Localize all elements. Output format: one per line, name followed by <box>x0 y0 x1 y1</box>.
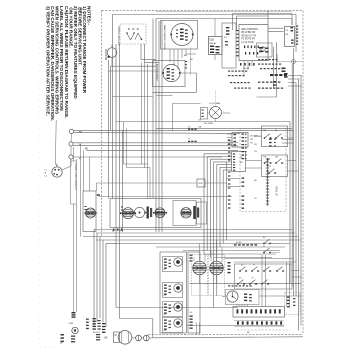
wire <box>187 325 285 327</box>
wire L1 BK <box>74 130 294 132</box>
wire <box>99 196 232 198</box>
clock box <box>226 290 260 305</box>
wire <box>277 61 292 63</box>
bus wire elbow to clock area <box>116 307 238 309</box>
svg-text:BK W BR OR: BK W BR OR <box>242 32 256 34</box>
bus wire <box>295 83 297 297</box>
bus wire <box>300 76 302 326</box>
svg-text:L1 L2 N GD: L1 L2 N GD <box>242 42 254 44</box>
wire <box>141 62 143 164</box>
wire <box>232 14 234 31</box>
connector J2 pin column <box>267 158 269 206</box>
row coil C5 <box>155 208 165 218</box>
wire <box>96 239 301 241</box>
svg-text:BR: BR <box>184 55 187 57</box>
harness dashed box <box>240 129 286 212</box>
fold dotted line bottom <box>40 346 58 348</box>
inline connector <box>188 141 190 142</box>
fan motor box <box>201 108 208 120</box>
svg-text:GY: GY <box>198 120 202 122</box>
oven relay box <box>222 23 236 68</box>
switch bank box <box>235 264 293 289</box>
wire <box>96 229 292 231</box>
wire <box>292 270 300 272</box>
row box <box>110 199 201 228</box>
svg-text:OR: OR <box>250 139 254 141</box>
svg-text:BK: BK <box>105 338 109 340</box>
dash row left b <box>228 75 230 76</box>
clock motor <box>227 291 238 302</box>
wire <box>99 237 101 319</box>
svg-text:GRN: GRN <box>69 323 74 325</box>
wire <box>144 62 146 167</box>
wire <box>237 15 269 17</box>
left harness stubs <box>228 139 230 140</box>
wire <box>288 75 302 77</box>
wire N branch <box>73 144 238 147</box>
bake pins <box>176 30 178 31</box>
wire <box>259 295 301 297</box>
door lock contacts <box>127 34 131 41</box>
svg-text:OR: OR <box>198 127 202 129</box>
power plug P1 <box>52 167 62 177</box>
row coil C6 <box>181 208 191 218</box>
svg-text:3701 W: 3701 W <box>275 186 279 196</box>
left thermostat box <box>83 191 96 232</box>
wire <box>105 244 107 328</box>
relay board pin column <box>296 26 298 27</box>
bus wire <box>158 21 160 232</box>
wire <box>190 282 301 284</box>
dashed wire <box>237 329 290 331</box>
svg-text:DOOR SW: DOOR SW <box>104 49 106 61</box>
wire <box>267 11 269 25</box>
wire <box>216 240 218 261</box>
switch SW1 <box>264 137 266 139</box>
junction circle J3 <box>69 155 73 159</box>
wire <box>89 157 91 191</box>
wire <box>196 323 198 335</box>
svg-text:DLB: DLB <box>210 40 215 42</box>
wire <box>183 250 280 252</box>
corner wire <box>126 128 128 167</box>
switch bank pins <box>228 262 231 263</box>
wire <box>172 104 174 131</box>
relay coil K2 <box>210 261 224 275</box>
wire <box>291 14 293 26</box>
clock marks <box>244 294 247 295</box>
wire <box>227 186 240 188</box>
wire <box>204 253 276 255</box>
wire <box>276 54 278 62</box>
wire <box>296 61 303 63</box>
wirebox edge <box>276 42 278 97</box>
wire <box>268 31 284 33</box>
svg-text:DOOR LOCK SW: DOOR LOCK SW <box>117 27 120 47</box>
wire <box>102 240 104 322</box>
oven light symbol <box>292 60 296 64</box>
wire <box>225 162 227 240</box>
switch SW5 <box>268 172 270 174</box>
wire <box>233 13 293 15</box>
wire <box>265 255 267 307</box>
bus wire <box>122 130 124 232</box>
wire <box>286 262 288 307</box>
switch row 2 <box>237 283 239 285</box>
wire <box>246 167 262 169</box>
wire <box>236 16 238 30</box>
connector stack CS2 <box>72 312 76 313</box>
cord tail wires <box>73 204 75 312</box>
cluster under control box <box>240 63 241 66</box>
term dash row 4 <box>258 82 260 83</box>
wire <box>210 251 212 262</box>
wire <box>273 47 275 88</box>
term dash row 3 <box>260 68 262 69</box>
bus wire <box>155 60 157 232</box>
fan motor circle <box>210 107 222 119</box>
wire <box>222 112 230 114</box>
wire <box>234 261 297 263</box>
tall box T2 <box>188 252 200 333</box>
outer dashed frame bottom edge <box>148 334 303 336</box>
wire <box>153 91 197 93</box>
switch row 1 <box>239 270 241 272</box>
wire <box>214 257 272 259</box>
wire <box>288 78 300 80</box>
wire <box>215 119 217 121</box>
svg-text:OVN: OVN <box>198 183 203 185</box>
wire <box>268 27 284 29</box>
svg-text:W: W <box>253 265 255 267</box>
svg-text:POWER CORD 4-WIRE KIT: POWER CORD 4-WIRE KIT <box>74 163 76 191</box>
nested frame left <box>155 19 157 61</box>
svg-text:RELAY: RELAY <box>210 42 218 45</box>
wire <box>116 121 290 123</box>
wire <box>93 230 95 328</box>
door lock dashed box <box>120 24 146 44</box>
inline connector <box>188 129 190 130</box>
row marks C4 <box>147 207 149 219</box>
wire <box>180 72 196 74</box>
wire <box>140 44 142 60</box>
wire <box>199 323 201 335</box>
bus wire <box>298 79 300 331</box>
term dash row 1 <box>258 59 260 60</box>
wire <box>196 73 198 92</box>
bus wire <box>161 21 163 232</box>
relay dashed box K2 <box>209 255 225 296</box>
bus wire <box>110 66 112 130</box>
wire L1 branch <box>74 132 240 135</box>
wire <box>288 137 294 139</box>
row right marks <box>193 206 196 219</box>
bake element circle <box>171 24 193 46</box>
svg-text:DK GRN: DK GRN <box>254 136 262 138</box>
svg-text:BAKE ELEMENT 3000W: BAKE ELEMENT 3000W <box>163 25 166 50</box>
term dash row 2 <box>258 64 260 65</box>
broil element coil <box>167 68 170 69</box>
wire <box>96 232 295 234</box>
harness top cluster <box>269 139 272 140</box>
wire N W <box>73 142 238 144</box>
wire <box>204 254 206 262</box>
connector stack CS1 <box>93 318 96 319</box>
svg-text:W: W <box>263 246 265 248</box>
switch pair <box>263 243 265 245</box>
cord riser wire <box>70 146 72 155</box>
wire <box>208 112 209 114</box>
selector tall box <box>160 252 187 333</box>
wire <box>80 144 82 237</box>
terminal row TR2 <box>237 321 239 324</box>
bus wire <box>291 64 293 287</box>
switch SW4 <box>275 162 277 164</box>
wire <box>292 276 302 278</box>
oven sensor <box>197 179 205 187</box>
thermostat coil <box>86 208 96 218</box>
svg-text:BROIL ELEMENT: BROIL ELEMENT <box>156 64 158 82</box>
wire <box>153 337 303 338</box>
oven motor <box>114 332 120 343</box>
wire <box>83 236 298 238</box>
wire <box>221 247 223 262</box>
wire <box>246 160 262 162</box>
wire <box>156 95 173 97</box>
outer dashed frame right edge <box>302 11 304 335</box>
bus wire <box>115 44 117 308</box>
wire <box>144 44 146 62</box>
relay coil K1 <box>193 261 207 275</box>
bus wire <box>152 19 154 199</box>
bus wire <box>108 60 110 199</box>
term heavy cluster <box>270 74 273 76</box>
component row dashes <box>234 244 237 245</box>
wire <box>193 258 195 262</box>
switch SW3 <box>264 162 266 164</box>
power cord label box <box>71 161 77 204</box>
bake element coil <box>180 29 184 31</box>
door switch circle <box>107 48 117 58</box>
wire <box>222 296 226 298</box>
row coil C2 <box>123 208 134 219</box>
bus wire <box>293 48 295 296</box>
wire <box>261 255 263 307</box>
svg-text:DK GRN: DK GRN <box>204 123 213 125</box>
svg-text:COOL FAN: COOL FAN <box>209 102 220 105</box>
junction circle J1 <box>69 129 73 133</box>
wire <box>205 182 227 184</box>
wire <box>199 275 201 284</box>
switch group box 2 <box>262 155 288 177</box>
wire <box>113 96 153 98</box>
relay dashed box K1 <box>192 255 208 296</box>
svg-text:BK BR: BK BR <box>236 242 242 244</box>
svg-text:BK W R: BK W R <box>93 332 101 334</box>
wire <box>156 246 285 248</box>
bus wire <box>289 122 291 284</box>
wire <box>288 160 297 162</box>
connector CN2 <box>232 152 246 172</box>
row circle C3 <box>134 207 144 217</box>
svg-text:W: W <box>188 139 190 141</box>
wire <box>288 170 299 172</box>
relay DLB <box>209 37 223 55</box>
wire <box>147 64 149 164</box>
wire <box>225 258 294 260</box>
dash row left d <box>234 88 236 89</box>
top rail <box>156 11 292 13</box>
latch box <box>257 43 273 57</box>
outer dashed frame top edge <box>102 10 304 12</box>
outer dashed frame left edge <box>101 11 103 238</box>
wire <box>288 82 296 84</box>
wire L2 R <box>87 149 239 151</box>
svg-text:P1 P2 P3 P4: P1 P2 P3 P4 <box>242 39 256 41</box>
nested frame top <box>156 18 292 20</box>
wire <box>111 65 157 67</box>
bake drop wires <box>169 49 171 62</box>
harness left pin column <box>242 134 245 135</box>
svg-text:BK: BK <box>85 147 89 150</box>
control box main <box>239 25 268 61</box>
wire <box>97 182 198 184</box>
corner wire <box>123 122 125 165</box>
wire from notes edge to plug <box>54 120 57 164</box>
wire <box>199 244 201 262</box>
switch SW2 <box>275 137 277 139</box>
svg-text:W: W <box>275 130 277 132</box>
wire <box>156 127 292 129</box>
terminal box TR1 <box>233 307 285 318</box>
wire <box>289 264 291 307</box>
svg-text:M: M <box>115 335 117 337</box>
right dashed box <box>285 293 301 315</box>
wire <box>111 57 113 66</box>
svg-text:ERC CONTROL: ERC CONTROL <box>242 29 259 31</box>
term dash row 5 <box>258 88 260 89</box>
control box left pins <box>236 30 238 31</box>
broil element circle <box>163 64 180 81</box>
fold dotted line <box>38 36 40 345</box>
harness left pin column 2 <box>242 178 245 179</box>
wire <box>83 150 85 191</box>
bus wire elbow to motor <box>120 318 153 320</box>
selector rows <box>163 257 183 272</box>
dash row left a <box>228 71 230 72</box>
wire <box>227 178 240 180</box>
row right box <box>197 202 207 224</box>
wire <box>288 85 302 87</box>
wire <box>215 90 217 106</box>
junction circle J2 <box>69 142 73 146</box>
inner frame right <box>295 15 297 53</box>
wire <box>120 243 290 245</box>
nested frame right stub <box>291 19 293 26</box>
wire <box>96 233 98 322</box>
motor terminals <box>136 335 142 341</box>
harness fan wires <box>204 153 232 155</box>
row inner box <box>173 201 196 226</box>
svg-text:W: W <box>119 231 121 233</box>
relay board box <box>285 27 295 47</box>
wire L2 lower <box>73 156 222 158</box>
bus wire <box>119 44 121 319</box>
broil element box <box>153 61 186 87</box>
svg-text:RD BU GY TN: RD BU GY TN <box>242 35 257 37</box>
dash row left c <box>230 82 232 83</box>
svg-text:1 2 3 4 5 6 7 8: 1 2 3 4 5 6 7 8 <box>236 305 248 307</box>
connector CN1 <box>232 133 248 148</box>
connector CN1 stubs <box>227 133 232 135</box>
inner frame top <box>113 14 297 16</box>
dashed row DR3 <box>228 285 230 286</box>
bake element box <box>161 21 198 50</box>
wire <box>216 275 218 284</box>
switch group box 1 <box>262 126 288 147</box>
ground lug marks <box>61 334 64 336</box>
wire <box>109 70 160 72</box>
inner frame left <box>112 15 114 199</box>
